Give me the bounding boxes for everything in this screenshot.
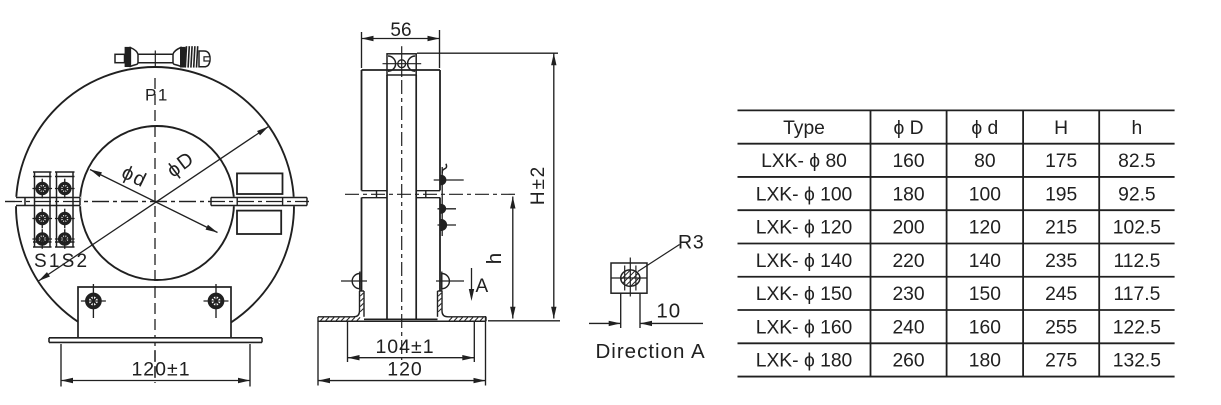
svg-text:H±2: H±2 [528, 165, 549, 205]
svg-text:230: 230 [892, 284, 924, 305]
svg-text:150: 150 [969, 284, 1001, 305]
svg-text:S1S2: S1S2 [34, 251, 89, 272]
svg-text:175: 175 [1045, 151, 1077, 172]
svg-text:LXK- ϕ 120: LXK- ϕ 120 [756, 218, 853, 239]
svg-text:245: 245 [1045, 284, 1077, 305]
svg-text:LXK- ϕ 140: LXK- ϕ 140 [756, 251, 853, 272]
svg-text:100: 100 [969, 184, 1001, 205]
svg-text:275: 275 [1045, 351, 1077, 372]
svg-text:H: H [1054, 118, 1068, 139]
svg-text:102.5: 102.5 [1113, 218, 1161, 239]
svg-text:240: 240 [892, 317, 924, 338]
svg-text:56: 56 [390, 20, 411, 41]
svg-text:117.5: 117.5 [1113, 284, 1160, 305]
svg-text:160: 160 [892, 151, 924, 172]
svg-text:92.5: 92.5 [1118, 184, 1156, 205]
svg-text:82.5: 82.5 [1118, 151, 1156, 172]
svg-text:260: 260 [892, 351, 924, 372]
svg-text:235: 235 [1045, 251, 1077, 272]
svg-text:120: 120 [387, 359, 423, 381]
svg-text:LXK- ϕ 150: LXK- ϕ 150 [756, 284, 853, 305]
svg-text:180: 180 [892, 184, 924, 205]
svg-text:P1: P1 [145, 86, 169, 105]
svg-text:Direction A: Direction A [596, 340, 706, 363]
svg-text:Type: Type [783, 118, 825, 139]
svg-text:LXK- ϕ 80: LXK- ϕ 80 [761, 151, 847, 172]
svg-text:120±1: 120±1 [131, 359, 190, 381]
svg-text:195: 195 [1045, 184, 1077, 205]
svg-text:LXK- ϕ 100: LXK- ϕ 100 [756, 184, 853, 205]
svg-text:220: 220 [892, 251, 924, 272]
svg-text:215: 215 [1045, 218, 1077, 239]
svg-text:132.5: 132.5 [1113, 351, 1161, 372]
svg-text:120: 120 [969, 218, 1001, 239]
svg-text:122.5: 122.5 [1113, 317, 1161, 338]
svg-text:ϕ D: ϕ D [894, 118, 924, 139]
svg-text:255: 255 [1045, 317, 1077, 338]
svg-text:h: h [483, 253, 506, 264]
svg-text:A: A [476, 276, 489, 297]
svg-text:ϕ d: ϕ d [971, 118, 998, 139]
svg-text:LXK- ϕ 180: LXK- ϕ 180 [756, 351, 853, 372]
svg-text:R3: R3 [678, 232, 705, 254]
svg-text:104±1: 104±1 [375, 336, 434, 358]
svg-text:h: h [1132, 118, 1143, 139]
svg-text:180: 180 [969, 351, 1001, 372]
svg-text:80: 80 [974, 151, 995, 172]
svg-text:LXK- ϕ 160: LXK- ϕ 160 [756, 317, 853, 338]
svg-text:200: 200 [892, 218, 924, 239]
svg-text:10: 10 [656, 300, 681, 323]
svg-text:112.5: 112.5 [1113, 251, 1160, 272]
svg-text:160: 160 [969, 317, 1001, 338]
svg-text:140: 140 [969, 251, 1001, 272]
